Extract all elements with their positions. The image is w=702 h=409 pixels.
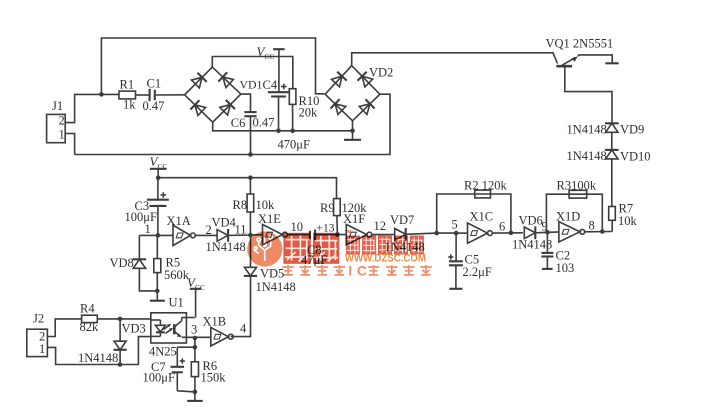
capacitor C6 xyxy=(231,112,275,154)
optocoupler U1 4N25 box xyxy=(149,296,186,359)
wire VD10 to R7 xyxy=(611,159,613,207)
inverter X1A xyxy=(167,214,196,246)
svg-text:6: 6 xyxy=(499,220,505,234)
junction X1A input xyxy=(156,233,161,238)
junction VD2-ground xyxy=(350,129,355,134)
inverter X1C xyxy=(468,210,494,244)
resistor R8 xyxy=(233,178,276,235)
svg-text:8: 8 xyxy=(589,219,595,233)
pin 10 label xyxy=(291,220,304,234)
svg-text:11: 11 xyxy=(235,223,247,237)
pin 5 label xyxy=(452,218,458,232)
svg-text:VD9: VD9 xyxy=(620,123,644,137)
pin 1 label X1A xyxy=(145,222,151,236)
pin 8 label xyxy=(589,219,595,233)
wire VQ1 collector down xyxy=(565,66,612,123)
power Vcc top xyxy=(257,44,285,92)
wire node3 down xyxy=(194,338,196,347)
wire U1 emitter to X1B xyxy=(186,336,210,338)
wire X1A out xyxy=(196,234,217,236)
svg-text:X1B: X1B xyxy=(203,315,227,329)
wire R1 to C1 xyxy=(136,94,150,96)
junction R2 return xyxy=(509,231,514,236)
svg-text:R4: R4 xyxy=(80,302,95,316)
wire Vcc rail mid xyxy=(158,178,336,199)
wire X1A input xyxy=(139,234,173,236)
resistor R6 xyxy=(191,347,226,392)
wire VD8 to R5 bottom xyxy=(139,268,157,291)
wire to X1C input xyxy=(456,232,467,234)
pin 3 label xyxy=(191,323,197,337)
svg-text:1N4148: 1N4148 xyxy=(567,123,607,137)
svg-text:VD3: VD3 xyxy=(122,322,146,336)
junction C4-rail xyxy=(276,129,281,134)
svg-text:1: 1 xyxy=(145,222,151,236)
capacitor C3 xyxy=(125,178,169,236)
junction R6 bottom xyxy=(193,390,198,395)
wire VD1 bottom to DC rail xyxy=(213,122,353,131)
wire X1F out xyxy=(372,234,394,236)
svg-text:2.2μF: 2.2μF xyxy=(463,265,492,279)
junction node 3b xyxy=(193,345,198,350)
svg-text:CC: CC xyxy=(195,283,205,292)
junction VD3 top xyxy=(118,317,123,322)
junction C5 node xyxy=(454,231,459,236)
svg-text:100μF: 100μF xyxy=(143,371,175,385)
svg-text:12: 12 xyxy=(374,219,387,233)
wire VD2 bottom to ground xyxy=(352,121,354,131)
wire VD5 to X1B output xyxy=(231,276,251,337)
resistor R2 xyxy=(464,179,507,198)
terminal bar at VQ1 emitter xyxy=(605,62,618,64)
svg-text:0.47: 0.47 xyxy=(253,115,275,129)
svg-text:X1D: X1D xyxy=(556,210,580,224)
wire R4 to U1 xyxy=(97,318,151,320)
transistor VQ1 2N5551 xyxy=(546,37,614,67)
diode VD8 xyxy=(110,256,147,270)
capacitor C1 xyxy=(143,77,165,114)
wire bottom to U1 cathode xyxy=(120,337,151,365)
diode VD2 upper-left xyxy=(332,72,347,87)
junction R3 return xyxy=(600,229,605,234)
diode VD5 xyxy=(244,267,296,295)
diode VD1 lower-right xyxy=(220,100,235,115)
wire VD1 right to C6 xyxy=(241,94,251,112)
wire node11 to X1E xyxy=(251,234,263,236)
svg-text:1: 1 xyxy=(59,128,65,142)
pin 4 label xyxy=(240,322,247,336)
junction node 11 xyxy=(248,233,253,238)
junction Vcc-rail-R8 xyxy=(248,175,253,180)
wire R3 feedback loop xyxy=(546,194,602,232)
svg-text:2: 2 xyxy=(59,114,65,128)
wire X1E out xyxy=(288,234,310,236)
svg-text:X1E: X1E xyxy=(258,212,281,226)
pin 11 label xyxy=(235,223,247,237)
pin 6 label xyxy=(499,220,505,234)
junction R5 bottom xyxy=(155,289,160,294)
power Vcc U1 xyxy=(187,275,205,318)
diode VD3 xyxy=(78,319,146,365)
diode VD1 lower-left xyxy=(190,100,205,115)
wire to C5 node xyxy=(437,232,456,234)
svg-text:VD6: VD6 xyxy=(519,214,543,228)
wire VD1 top to Vcc rail xyxy=(212,57,292,89)
svg-text:VD1: VD1 xyxy=(240,78,263,92)
light arrows inside U1 xyxy=(164,324,174,334)
ground below C2 xyxy=(542,268,553,270)
diode VD4 xyxy=(206,216,246,255)
resistor R4 xyxy=(80,302,100,335)
svg-text:R1: R1 xyxy=(120,78,135,92)
svg-text:20k: 20k xyxy=(299,106,319,120)
power Vcc mid xyxy=(150,154,168,178)
diode VD2 lower-right xyxy=(359,99,374,114)
svg-text:R9: R9 xyxy=(320,201,335,215)
diode VD10 xyxy=(567,149,651,164)
resistor R1 xyxy=(119,78,136,112)
svg-text:X1A: X1A xyxy=(167,214,191,228)
wire VD4 to node11 xyxy=(228,234,250,236)
ground below C5 xyxy=(449,288,462,290)
diode VD2 lower-left xyxy=(331,99,346,114)
ground below VD2 xyxy=(344,131,361,140)
wire VD7 to X1C node xyxy=(406,233,437,234)
svg-text:1: 1 xyxy=(39,342,45,356)
svg-text:TM: TM xyxy=(345,229,352,235)
resistor R5 xyxy=(154,235,190,291)
svg-text:X1F: X1F xyxy=(343,212,365,226)
svg-text:1N4148: 1N4148 xyxy=(78,351,118,365)
svg-text:VD4: VD4 xyxy=(212,216,237,230)
junction node 3 xyxy=(193,336,198,341)
capacitor C5 xyxy=(448,233,492,289)
svg-text:VD2: VD2 xyxy=(369,66,393,80)
connector J2 xyxy=(27,312,48,357)
svg-text:5: 5 xyxy=(452,218,458,232)
junction VD3 bottom xyxy=(118,362,123,367)
junction R9 bottom xyxy=(335,232,340,237)
svg-text:J2: J2 xyxy=(33,312,44,326)
diode VD1 upper-left xyxy=(192,73,207,88)
svg-text:10k: 10k xyxy=(256,198,276,212)
wire bottom rail xyxy=(75,94,390,154)
wire C1 to VD1 bridge xyxy=(155,94,185,96)
capacitor C4 xyxy=(263,78,310,152)
capacitor C8 xyxy=(301,223,335,268)
wire VD9 to VD10 xyxy=(611,132,613,150)
wire J2 pin2 to R4 xyxy=(47,319,81,337)
svg-text:1N4148: 1N4148 xyxy=(512,238,552,252)
wire J1 pin1 to bottom rail xyxy=(65,134,74,155)
svg-text:C4: C4 xyxy=(263,78,278,92)
inverter X1F xyxy=(343,212,372,245)
wire R2 feedback loop xyxy=(437,194,511,233)
junction R10-rail xyxy=(290,129,295,134)
svg-text:100μF: 100μF xyxy=(125,210,157,224)
svg-text:R2 120k: R2 120k xyxy=(464,179,507,193)
wire C8 to X1F xyxy=(315,234,346,236)
svg-text:560k: 560k xyxy=(164,268,190,282)
svg-text:+13: +13 xyxy=(317,223,335,235)
svg-text:CC: CC xyxy=(265,52,275,61)
wire to VD8 xyxy=(138,235,140,259)
svg-text:VD10: VD10 xyxy=(620,150,651,164)
svg-text:10: 10 xyxy=(291,220,304,234)
resistor R7 xyxy=(609,202,638,232)
pin 2 label xyxy=(206,223,212,237)
wire X1C out xyxy=(493,232,523,234)
wire J2 pin1 to bottom xyxy=(47,347,120,364)
node A junction xyxy=(99,92,104,97)
svg-text:4: 4 xyxy=(240,322,247,336)
svg-text:VD8: VD8 xyxy=(110,256,134,270)
svg-text:470μF: 470μF xyxy=(278,138,310,152)
svg-text:X1C: X1C xyxy=(470,210,494,224)
diode bridge VD1 frame xyxy=(185,67,263,122)
watermark dzsc.com logo and text xyxy=(247,229,432,278)
capacitor C2 xyxy=(541,232,574,275)
svg-text:R3100k: R3100k xyxy=(557,179,597,193)
wire X1D out xyxy=(585,231,612,233)
wire VD2 top to VQ1 base xyxy=(352,53,558,66)
pin 12 label xyxy=(374,219,387,233)
junction R2 riser xyxy=(434,231,439,236)
inverter X1E xyxy=(258,212,287,245)
svg-text:1N4148: 1N4148 xyxy=(567,149,607,163)
LED inside U1 xyxy=(151,320,166,336)
svg-text:1N4148: 1N4148 xyxy=(256,280,296,294)
svg-text:C: C xyxy=(357,263,367,278)
svg-text:C1: C1 xyxy=(147,77,162,91)
svg-text:103: 103 xyxy=(556,261,575,275)
svg-text:VD5: VD5 xyxy=(260,267,284,281)
svg-text:3: 3 xyxy=(191,323,197,337)
pin 9 label xyxy=(542,220,548,234)
svg-text:R8: R8 xyxy=(233,198,248,212)
junction C2 node xyxy=(545,230,550,235)
wire top rail xyxy=(101,38,324,94)
wire VD6 to node 9 xyxy=(535,231,559,234)
wire node11 to VD5 xyxy=(250,235,252,267)
wire J1 pin2 to node A xyxy=(65,94,119,122)
inverter X1D xyxy=(556,210,585,243)
diode VD7 xyxy=(385,213,425,254)
svg-text:4N25: 4N25 xyxy=(149,345,177,359)
phototransistor inside U1 xyxy=(174,318,195,338)
junction C6-bottom-rail xyxy=(248,152,253,157)
svg-text:1N4148: 1N4148 xyxy=(206,240,246,254)
svg-text:150k: 150k xyxy=(201,371,227,385)
svg-text:U1: U1 xyxy=(169,296,184,310)
svg-text:VD7: VD7 xyxy=(390,213,414,227)
diode bridge VD2 frame xyxy=(325,66,393,121)
svg-text:10k: 10k xyxy=(618,214,638,228)
diode VD9 xyxy=(567,123,645,137)
svg-text:0.47: 0.47 xyxy=(143,99,165,113)
svg-text:J1: J1 xyxy=(52,99,63,113)
connector J1 xyxy=(47,99,66,143)
svg-text:VQ1 2N5551: VQ1 2N5551 xyxy=(546,37,614,51)
diode VD6 xyxy=(512,214,552,252)
resistor R3 xyxy=(557,179,597,199)
resistor R10 xyxy=(289,89,319,131)
ground below R5 xyxy=(150,291,165,301)
svg-text:C6: C6 xyxy=(231,116,246,130)
diode VD2 upper-right xyxy=(358,72,373,87)
resistor R9 xyxy=(320,199,367,235)
diode VD1 upper-right xyxy=(218,72,233,87)
ground below R6 xyxy=(187,392,203,401)
svg-text:82k: 82k xyxy=(80,320,100,334)
svg-text:1k: 1k xyxy=(123,98,136,112)
junction Vcc-rail-left xyxy=(156,175,161,180)
inverter X1B xyxy=(203,315,234,347)
svg-text:I: I xyxy=(348,263,352,278)
wire VQ1 emitter to terminal xyxy=(578,55,612,62)
capacitor C7 xyxy=(143,347,195,392)
